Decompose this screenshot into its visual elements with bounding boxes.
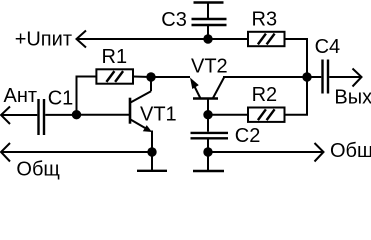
svg-text:Общ: Общ	[330, 140, 371, 162]
wire C4 to output terminal	[329, 76, 361, 78]
svg-text:R2: R2	[252, 84, 278, 106]
wire base node to VT1 base	[77, 114, 130, 116]
resistor R1	[96, 69, 133, 83]
output terminal arrow Vykh	[353, 69, 362, 87]
wire right common rail	[208, 151, 324, 153]
supply terminal arrow +Upit	[77, 31, 87, 48]
svg-text:+Uпит: +Uпит	[15, 29, 72, 51]
svg-text:Ант: Ант	[4, 85, 38, 107]
wire output node to C4	[307, 76, 321, 78]
svg-text:R1: R1	[102, 46, 128, 68]
wire left common rail	[1, 151, 152, 153]
transistor VT1	[130, 77, 152, 132]
antenna terminal arrow Ant	[1, 107, 10, 125]
common terminal arrow Obsh left	[1, 143, 10, 162]
wire R2 to VT2 base node	[208, 114, 248, 116]
junction dot right common rail	[203, 147, 212, 156]
svg-text:C3: C3	[161, 9, 187, 31]
wire R3 to output node	[286, 39, 308, 77]
wire C2 to right common rail	[207, 138, 209, 152]
wire R1 left to base node	[77, 77, 97, 115]
chassis ground symbol below VT1	[137, 152, 167, 171]
junction dot VT2 base node	[203, 110, 212, 119]
svg-text:Вых: Вых	[334, 87, 371, 109]
svg-text:C4: C4	[315, 36, 341, 58]
junction dot R1 and VT1 collector node	[146, 72, 155, 81]
wire output node down to R2	[286, 77, 308, 115]
capacitor C4	[323, 60, 329, 94]
capacitor C1	[39, 99, 45, 135]
resistor R2	[248, 108, 285, 122]
transistor VT2	[190, 78, 224, 115]
junction dot left common rail	[147, 147, 156, 156]
svg-text:C2: C2	[235, 125, 261, 147]
svg-text:Общ: Общ	[16, 158, 59, 180]
chassis ground symbol below C2	[193, 152, 224, 171]
svg-text:VT1: VT1	[140, 103, 177, 125]
common terminal arrow Obsh right	[315, 143, 324, 162]
svg-text:R3: R3	[252, 9, 278, 31]
chassis common terminal above C3	[194, 3, 224, 19]
capacitor C2	[191, 133, 229, 138]
wire supply rail	[77, 38, 249, 40]
wire Ant to C1	[1, 114, 37, 116]
wire C1 to base node	[45, 114, 76, 116]
resistor R3	[248, 32, 285, 46]
svg-text:VT2: VT2	[191, 55, 228, 77]
capacitor C3	[192, 19, 227, 25]
junction dot base node	[72, 110, 81, 119]
wire C3 to supply rail	[207, 25, 209, 39]
wire VT2 base to C2	[207, 115, 209, 132]
wire VT2 collector to output node	[223, 76, 307, 78]
wire collector node to VT2 emitter	[151, 76, 190, 78]
junction dot output node	[302, 72, 311, 81]
wire VT1 emitter to common rail	[151, 131, 153, 153]
wire R1 right to collector node	[133, 76, 151, 79]
svg-text:C1: C1	[48, 87, 74, 109]
junction dot C3 on supply rail	[203, 34, 212, 43]
